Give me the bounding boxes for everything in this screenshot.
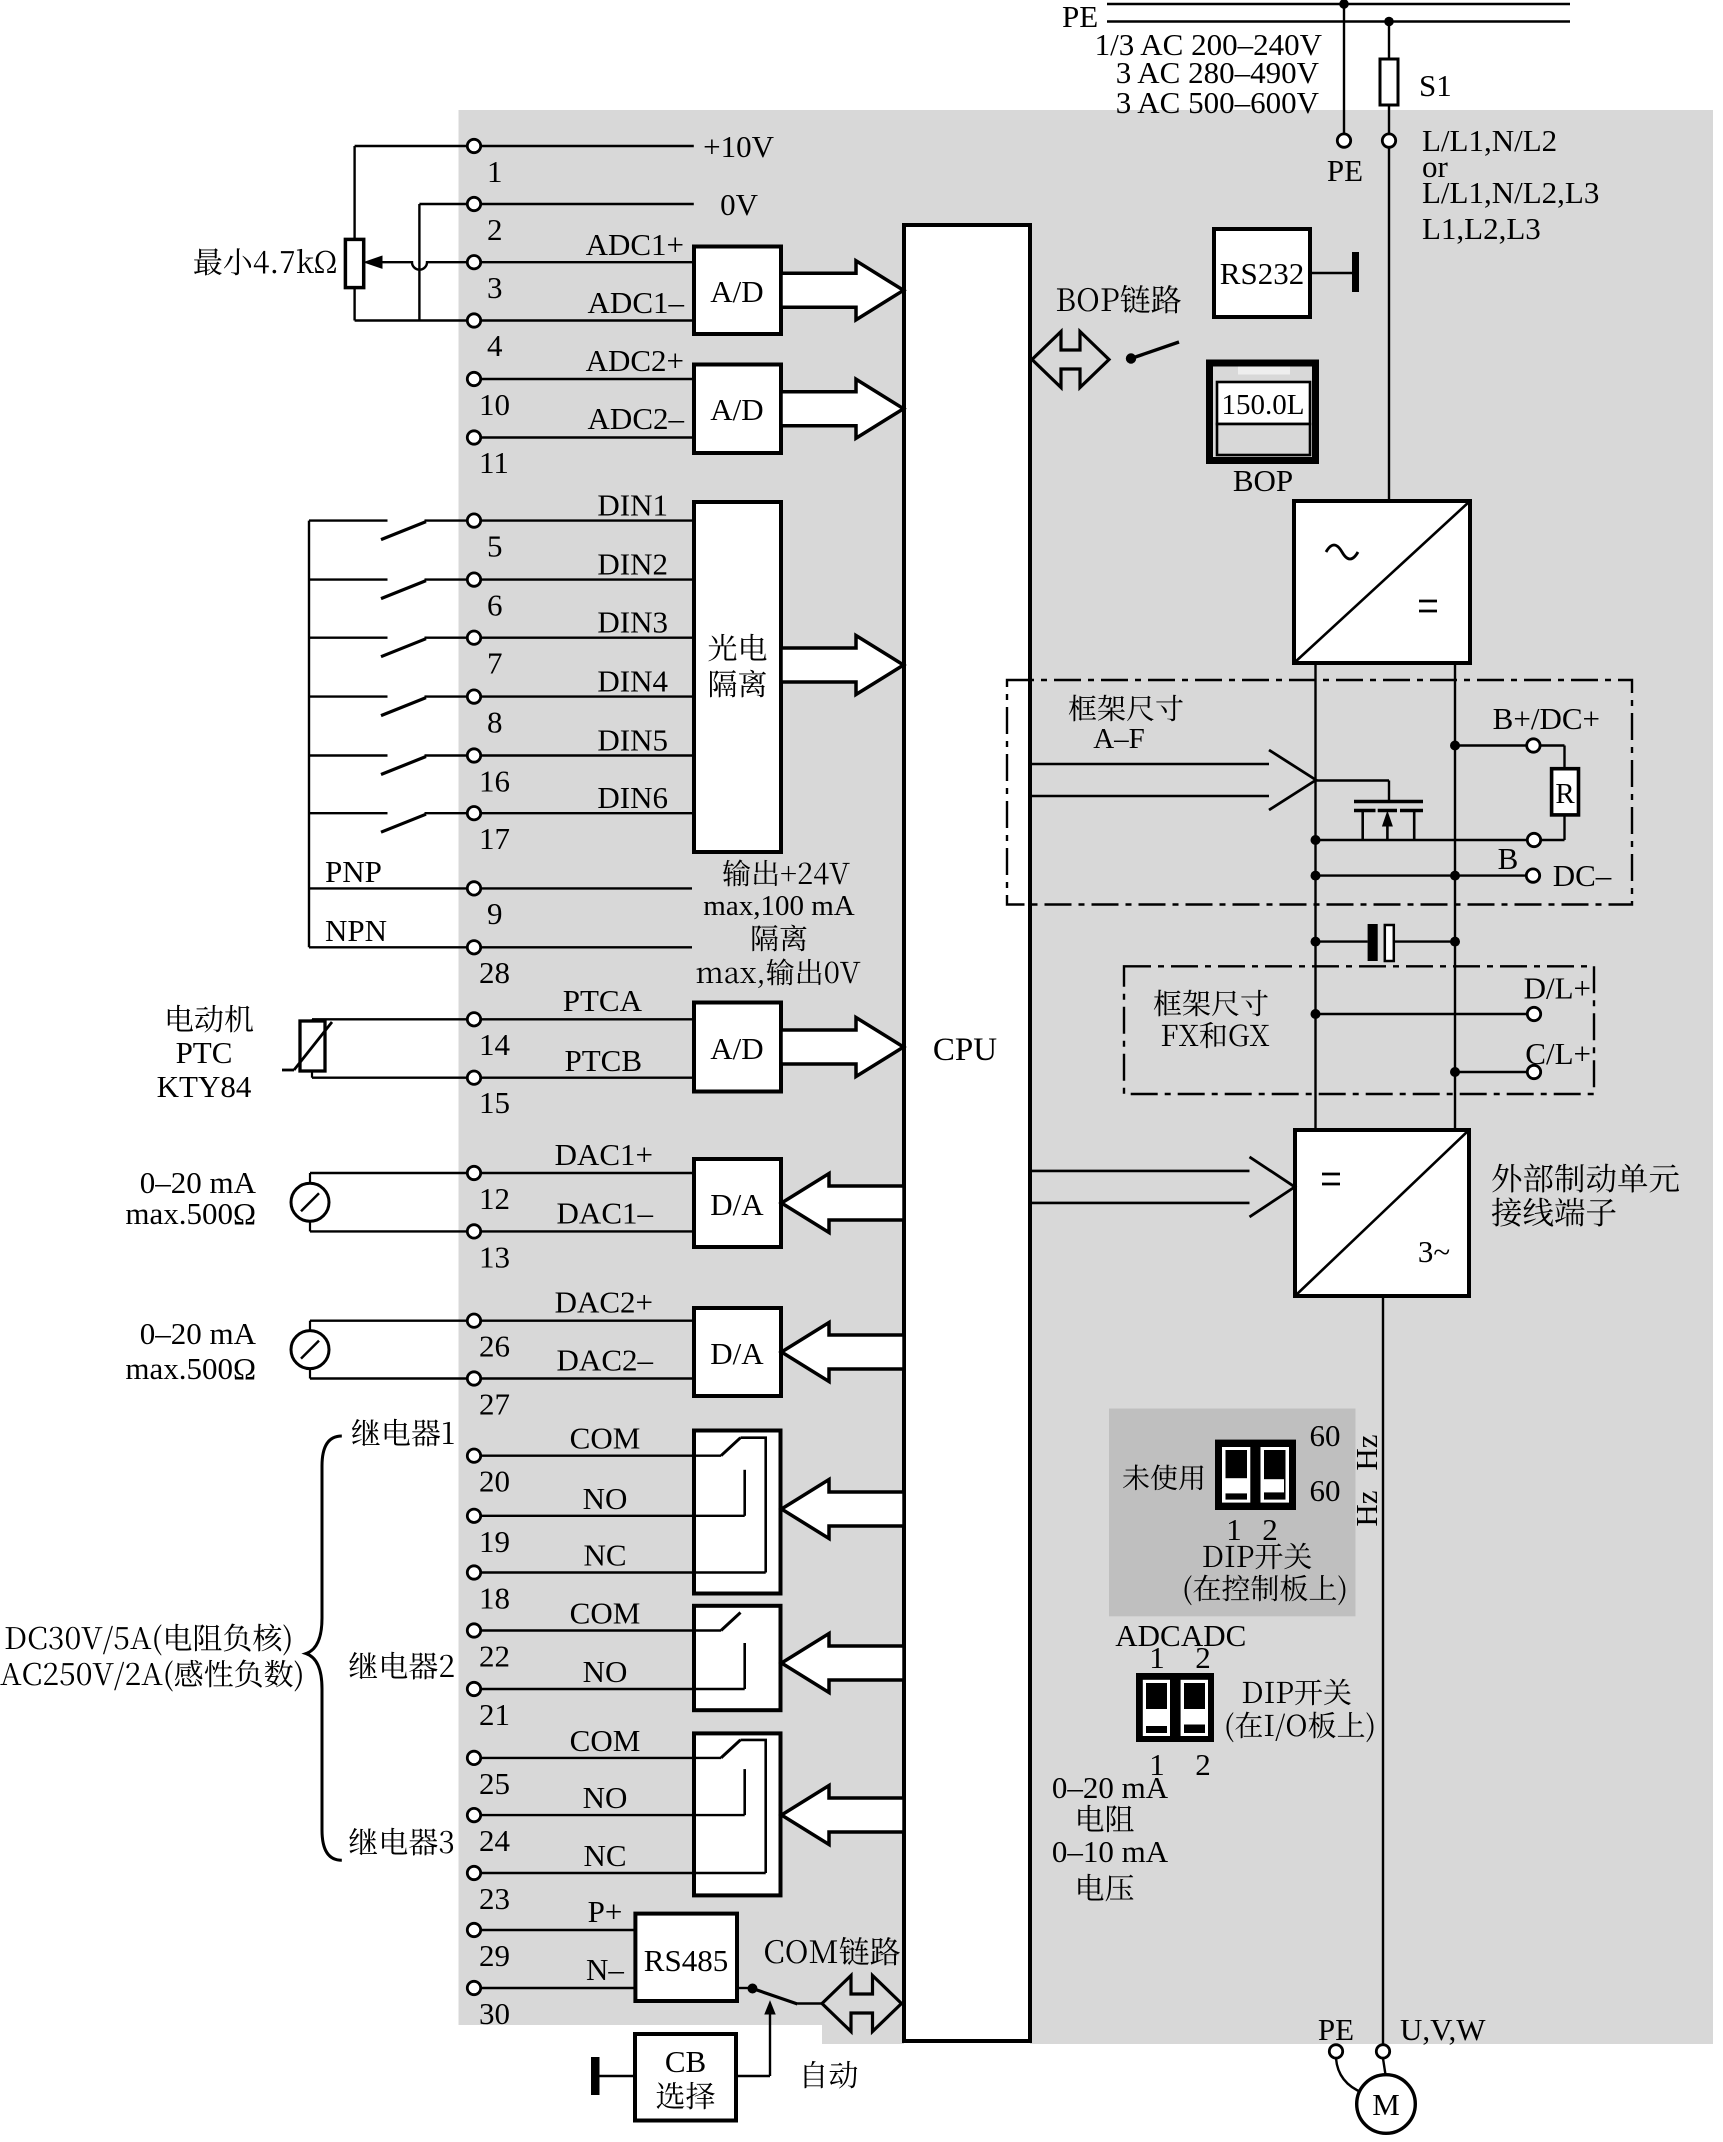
wire DIN3 [481,637,694,639]
background gray area [459,110,1714,2044]
thermistor symbol [300,1021,325,1071]
relay2 contacts [481,1629,721,1631]
svg-text:27: 27 [479,1387,510,1422]
svg-text:Hz: Hz [1349,1490,1384,1526]
svg-text:DAC2–: DAC2– [557,1343,654,1378]
svg-text:ADC: ADC [1115,1618,1180,1653]
svg-text:CPU: CPU [933,1032,997,1068]
+24V output note [723,859,850,886]
svg-text:Hz: Hz [1349,1434,1384,1470]
svg-text:DAC1+: DAC1+ [555,1137,653,1172]
terminal 14 [467,1013,480,1026]
svg-text:A/D: A/D [710,274,763,309]
svg-text:PTC: PTC [176,1035,233,1070]
svg-text:8: 8 [487,705,503,740]
svg-text:30: 30 [479,1996,510,2031]
terminal 8 [467,690,480,703]
svg-text:3: 3 [487,270,503,305]
terminal 27 [467,1372,480,1385]
wire P+ [481,1929,635,1931]
ratings labels [6,1624,291,1656]
svg-text:N–: N– [586,1952,624,1987]
switch DIN1 [309,519,388,521]
svg-text:5: 5 [487,529,503,564]
dip switch io board [1136,1673,1214,1742]
svg-text:A–F: A–F [1093,723,1145,755]
svg-text:L1,L2,L3: L1,L2,L3 [1422,211,1541,246]
MOSFET stubs [1361,811,1364,841]
wire DIN4 [481,695,694,697]
arrow AD1 to CPU [781,261,904,320]
MOSFET body arrow [1386,820,1389,840]
terminal 28 [467,941,480,954]
svg-text:PTCB: PTCB [564,1043,642,1078]
svg-text:DIN5: DIN5 [597,723,668,758]
svg-text:D/A: D/A [710,1187,764,1222]
pot wiper wire with hop [381,262,467,270]
relay1 box [694,1431,781,1594]
frame FX GX dash-dot box [1124,966,1594,1094]
external brake labels [1492,1164,1679,1193]
svg-text:1: 1 [1149,1640,1165,1675]
arrow CPU to relay3 [782,1786,905,1845]
svg-text:NC: NC [583,1838,626,1873]
wire PNP row [309,887,467,889]
switch DIN6 [309,812,388,814]
svg-text:NPN: NPN [325,913,387,948]
io dip caption [1243,1679,1351,1705]
svg-text:23: 23 [479,1881,510,1916]
svg-text:max.500Ω: max.500Ω [125,1196,256,1231]
terminal 4 [467,314,480,327]
ammeter symbol [309,1321,311,1331]
COM link double arrow [822,1976,902,2032]
svg-text:1: 1 [487,154,503,189]
svg-text:PE: PE [1318,2012,1354,2047]
svg-text:ADC2–: ADC2– [588,401,685,436]
relay2 box [694,1606,781,1710]
B+/DC+ node [1450,741,1460,751]
terminal 11 [467,431,480,444]
dip switch control board [1215,1440,1296,1510]
svg-text:0–20 mA: 0–20 mA [140,1165,257,1200]
terminal 12 [467,1166,480,1179]
svg-text:2: 2 [487,212,503,247]
svg-text:R: R [1555,778,1575,810]
terminal L [1382,134,1395,147]
switch to COM link [737,1987,748,1989]
svg-text:NO: NO [583,1780,628,1815]
svg-text:3~: 3~ [1418,1234,1450,1269]
svg-text:B+/DC+: B+/DC+ [1493,701,1600,736]
svg-text:D/L+: D/L+ [1524,971,1591,1006]
CB select box [635,2034,736,2121]
svg-text:17: 17 [479,821,510,856]
svg-text:PNP: PNP [325,854,382,889]
terminal B [1527,833,1540,846]
D/L+ node [1311,1009,1321,1019]
min 4.7k label [194,248,336,275]
svg-text:13: 13 [479,1239,510,1274]
wire L to rectifier [1388,148,1390,501]
svg-text:0V: 0V [720,187,759,222]
arrow AD2 to CPU [781,379,904,438]
svg-text:BOP: BOP [1233,463,1293,498]
rectifier box [1294,501,1470,663]
svg-text:26: 26 [479,1329,510,1364]
wire ADC1- [481,319,694,321]
svg-text:A/D: A/D [710,392,763,427]
wire +10V [481,145,694,147]
svg-text:DC–: DC– [1553,858,1612,893]
dc link capacitor [1316,940,1368,942]
svg-text:0–20 mA: 0–20 mA [1052,1770,1169,1805]
arrow CPU to inverter [1030,1170,1250,1173]
svg-text:2: 2 [1195,1747,1211,1782]
arrow CPU to relay1 [782,1480,905,1539]
svg-text:L/L1,N/L2,L3: L/L1,N/L2,L3 [1422,175,1599,210]
svg-text:PTCA: PTCA [563,983,643,1018]
svg-text:19: 19 [479,1524,510,1559]
svg-text:DIN4: DIN4 [597,664,668,699]
svg-text:+10V: +10V [703,129,774,164]
RS232 connector [1310,272,1352,275]
svg-text:S1: S1 [1419,68,1452,103]
svg-text:9: 9 [487,896,503,931]
arrow CPU to DA2 [782,1323,905,1382]
terminal 17 [467,807,480,820]
relay group labels [352,1419,454,1447]
terminal 18 [467,1566,480,1579]
CB connector bar [591,2057,600,2095]
relay1 contacts [481,1454,721,1456]
A/D box PTC [694,1003,781,1092]
terminal 10 [467,372,480,385]
terminal 21 [467,1682,480,1695]
wire PTCB [311,1071,313,1078]
wire 0V [481,203,694,205]
switch DIN3 [309,637,388,639]
svg-text:max.500Ω: max.500Ω [125,1351,256,1386]
DIN bus line [308,521,310,948]
wire DAC2– [310,1377,467,1379]
svg-text:10: 10 [479,387,510,422]
DC- line [1316,874,1527,876]
wire ADC1+ [481,261,694,263]
svg-text:KTY84: KTY84 [157,1069,252,1104]
terminal 2 [467,197,480,210]
opto-isolation box [694,502,781,852]
curly brace [306,1436,342,1860]
svg-text:3 AC 500–600V: 3 AC 500–600V [1116,85,1320,120]
C/L+ node [1450,1067,1460,1077]
MOSFET gate bar [1354,800,1423,804]
svg-text:ADC: ADC [1181,1618,1246,1653]
svg-text:0–10 mA: 0–10 mA [1052,1834,1169,1869]
svg-text:1: 1 [1226,1512,1242,1547]
terminal UVW [1376,2045,1389,2058]
terminal 7 [467,631,480,644]
svg-text:60: 60 [1310,1473,1341,1508]
terminal 5 [467,514,480,527]
arrow CPU to relay2 [782,1634,905,1693]
ammeter symbol [309,1173,311,1183]
svg-text:COM: COM [570,1596,641,1631]
svg-text:PE: PE [1062,0,1098,34]
terminal 29 [467,1923,480,1936]
wire PTCA [311,1019,313,1022]
relay3 contacts [481,1757,721,1759]
svg-text:7: 7 [487,646,503,681]
fuse S1 [1380,59,1398,105]
wire DAC1– [310,1230,467,1232]
svg-text:NC: NC [583,1538,626,1573]
D/A box 2 [694,1308,781,1396]
terminal 13 [467,1225,480,1238]
svg-text:COM: COM [570,1421,641,1456]
svg-text:28: 28 [479,955,510,990]
motor M [1357,2075,1416,2134]
terminal 9 [467,882,480,895]
PE supply double line [1107,3,1570,6]
wire ADC2+ [481,378,694,380]
terminal 22 [467,1624,480,1637]
svg-text:29: 29 [479,1938,510,1973]
svg-text:NO: NO [583,1654,628,1689]
svg-text:0–20 mA: 0–20 mA [140,1316,257,1351]
wire fuse to terminal [1388,105,1390,134]
wire L drop [1388,22,1390,61]
svg-text:U,V,W: U,V,W [1400,2012,1486,2047]
svg-text:15: 15 [479,1085,510,1120]
svg-text:C/L+: C/L+ [1525,1036,1591,1071]
svg-text:60: 60 [1310,1418,1341,1453]
svg-text:150.0L: 150.0L [1222,389,1305,421]
svg-text:DAC2+: DAC2+ [555,1285,653,1320]
switch DIN2 [309,578,388,580]
wire DIN1 [481,519,694,521]
A/D box 2 [694,365,781,454]
unused label [1123,1465,1203,1491]
BOP link switch [1126,353,1136,363]
terminal 26 [467,1314,480,1327]
wire pot bottom to ADC1- [353,288,355,321]
arrow opto to CPU [781,636,904,695]
svg-text:20: 20 [479,1464,510,1499]
terminal 6 [467,573,480,586]
junction on L line [1384,17,1394,27]
svg-text:DAC1–: DAC1– [557,1195,654,1230]
motor PTC labels [168,1005,253,1033]
svg-text:CB: CB [665,2044,706,2079]
svg-text:12: 12 [479,1181,510,1216]
RS485 box [635,1914,737,2001]
svg-text:ADC1–: ADC1– [588,285,685,320]
svg-text:6: 6 [487,588,503,623]
relay3 box [694,1733,781,1895]
svg-text:D/A: D/A [710,1336,764,1371]
svg-text:P+: P+ [588,1894,623,1929]
brake resistor R [1552,769,1579,815]
svg-text:25: 25 [479,1766,510,1801]
svg-text:2: 2 [1262,1512,1278,1547]
BOP panel [1206,360,1319,465]
auto wire with arrow [736,2075,770,2077]
wire ADC2- [481,436,694,438]
svg-text:2: 2 [1195,1640,1211,1675]
MOSFET gate lead [1316,779,1389,781]
wire DIN2 [481,578,694,580]
terminal 30 [467,1981,480,1994]
svg-text:COM: COM [570,1723,641,1758]
junction on PE line [1339,0,1349,9]
svg-text:M: M [1372,2087,1400,2122]
potentiometer 4.7k [345,239,363,287]
terminal 19 [467,1509,480,1522]
svg-text:DIN1: DIN1 [597,488,668,523]
arrow PTC AD to CPU [781,1018,904,1077]
wire 0V branch [419,203,467,205]
source line to B [1316,839,1527,841]
D/A box 1 [694,1159,781,1247]
terminal 1 [467,139,480,152]
svg-text:A/D: A/D [710,1031,763,1066]
COM link label [765,1937,900,1966]
svg-text:4: 4 [487,328,503,363]
terminal 20 [467,1449,480,1462]
svg-text:B: B [1498,841,1519,876]
svg-text:DIN6: DIN6 [597,780,668,815]
wire DIN5 [481,754,694,756]
inverter box [1295,1130,1469,1296]
svg-text:14: 14 [479,1027,511,1062]
terminal PE [1337,134,1350,147]
wire DAC2+ [310,1319,467,1321]
wire PE drop [1343,4,1345,134]
BOP link label [1057,285,1181,314]
motor feed line [1382,1296,1384,2044]
wire DAC1+ [310,1172,467,1174]
DC rails [1314,663,1316,1130]
svg-text:24: 24 [479,1823,511,1858]
svg-text:DIN3: DIN3 [597,605,668,640]
dip caption [1203,1543,1311,1569]
svg-text:PE: PE [1327,153,1363,188]
gate drive arrow [1030,763,1269,766]
svg-text:11: 11 [479,445,509,480]
switch DIN4 [309,695,388,697]
auto label [805,2061,858,2089]
svg-text:16: 16 [479,764,510,799]
svg-text:ADC2+: ADC2+ [586,343,684,378]
wire terminal1 to pot top [355,145,467,147]
wire DIN6 [481,812,694,814]
switch DIN5 [309,754,388,756]
CPU box [904,225,1030,2041]
terminal 3 [467,256,480,269]
BOP link double arrow [1032,332,1109,388]
arrow CPU to DA1 [782,1174,905,1233]
RS232 box [1214,229,1310,317]
terminal 23 [467,1866,480,1879]
terminal 25 [467,1751,480,1764]
svg-text:22: 22 [479,1639,510,1674]
frame A-F dash-dot box [1007,680,1632,905]
wiper arrowhead [365,256,383,268]
terminal 24 [467,1808,480,1821]
wire N- [481,1987,635,1989]
svg-text:18: 18 [479,1581,510,1616]
A/D box 1 [694,247,781,335]
terminal 15 [467,1071,480,1084]
svg-text:ADC1+: ADC1+ [586,227,684,262]
motor wires [1336,2058,1363,2093]
svg-text:max,100 mA: max,100 mA [703,890,854,922]
MOSFET channel [1354,809,1376,813]
svg-text:21: 21 [479,1697,510,1732]
svg-text:DIN2: DIN2 [597,547,668,582]
terminal 16 [467,749,480,762]
wire NPN row [309,946,467,948]
dip panel background [1109,1409,1356,1617]
svg-text:NO: NO [583,1481,628,1516]
svg-text:RS232: RS232 [1220,256,1304,291]
terminal PE motor [1329,2045,1342,2058]
svg-text:RS485: RS485 [644,1943,728,1978]
